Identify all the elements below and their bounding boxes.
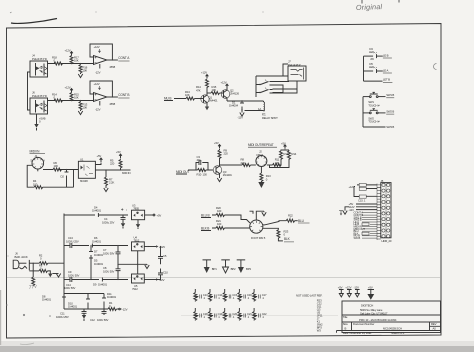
svg-text:MC10452B.SCH: MC10452B.SCH xyxy=(383,327,402,331)
capacitor C14 xyxy=(209,289,223,302)
svg-text:+5V: +5V xyxy=(116,150,121,154)
svg-text:100: 100 xyxy=(217,222,222,226)
svg-text:SW B: SW B xyxy=(354,236,361,240)
node +5V out xyxy=(145,213,162,217)
svg-text:BAR. JACK: BAR. JACK xyxy=(15,255,28,259)
svg-text:FOOT DIN 5: FOOT DIN 5 xyxy=(251,236,266,240)
op-amp U2A xyxy=(94,56,107,65)
supply tap -12V xyxy=(354,286,360,297)
svg-text:1000u 25V: 1000u 25V xyxy=(102,220,114,224)
resistor R15b base xyxy=(211,85,224,95)
svg-text:SW2 B: SW2 B xyxy=(386,110,394,114)
svg-text:C12: C12 xyxy=(90,318,95,322)
switch bus xyxy=(362,97,364,127)
capacitor C5 right of U4 xyxy=(158,246,167,264)
transistor Q3 xyxy=(213,165,232,182)
svg-text:DIN 5: DIN 5 xyxy=(257,153,264,157)
svg-text:7912: 7912 xyxy=(132,287,138,291)
diode D1 xyxy=(229,101,244,111)
svg-text:10K: 10K xyxy=(83,106,88,110)
svg-text:W3: W3 xyxy=(317,329,321,333)
node BLU B xyxy=(201,213,216,217)
node MIDI OUT in xyxy=(176,170,196,174)
relay contacts xyxy=(256,76,297,97)
svg-text:1N4001: 1N4001 xyxy=(68,305,77,309)
svg-text:BLU: BLU xyxy=(298,219,305,223)
svg-text:-12V: -12V xyxy=(122,308,128,312)
svg-text:+12V: +12V xyxy=(201,71,207,75)
bottom gray band xyxy=(0,346,474,352)
svg-text:LED: LED xyxy=(369,65,374,69)
svg-text:47K: 47K xyxy=(196,88,201,92)
supply tap GND bold xyxy=(367,286,374,300)
svg-text:+12V: +12V xyxy=(159,245,165,249)
resistor R3 series xyxy=(29,264,47,273)
-12V rail to C10 xyxy=(156,279,161,281)
svg-text:+12V: +12V xyxy=(65,86,71,90)
svg-text:+12V: +12V xyxy=(94,45,100,49)
svg-text:Size: Size xyxy=(343,322,348,326)
ferrite bead FB1 xyxy=(362,223,369,226)
resistor R14b xyxy=(52,92,63,102)
resistor R6 xyxy=(53,161,62,171)
svg-text:C10: C10 xyxy=(163,271,168,275)
resistor R19 vertical at jack xyxy=(32,263,35,287)
small C mark right edge xyxy=(434,64,437,70)
svg-text:R14: R14 xyxy=(292,152,297,156)
resistor R13m below J2 xyxy=(260,167,271,182)
svg-text:SW1 B: SW1 B xyxy=(386,93,394,97)
svg-text:TOUCH #: TOUCH # xyxy=(368,103,380,107)
svg-text:DIGITECH: DIGITECH xyxy=(361,304,373,308)
svg-text:MIDI IN: MIDI IN xyxy=(122,171,131,175)
svg-text:+12V: +12V xyxy=(221,81,227,85)
net +12V top left xyxy=(349,185,360,197)
capacitor C10 right of U5 xyxy=(158,269,168,281)
main bus xyxy=(63,214,65,310)
pen slash marks near Original xyxy=(362,0,399,4)
connector J3 barrel jack xyxy=(13,252,33,271)
diode D10 xyxy=(68,294,90,310)
net -12V xyxy=(349,208,378,212)
svg-text:MIDI IN: MIDI IN xyxy=(30,149,41,153)
resistor R21f xyxy=(216,219,250,230)
connector J7 label xyxy=(288,60,301,67)
diode D11 xyxy=(102,292,116,309)
svg-text:Sheet 1 of 1: Sheet 1 of 1 xyxy=(391,331,405,335)
capacitor C8 xyxy=(103,264,121,279)
test point TP1 xyxy=(203,260,218,273)
test point TP3 xyxy=(237,260,252,273)
capacitor C4 xyxy=(102,208,127,228)
svg-text:-12V: -12V xyxy=(95,108,101,112)
capacitor C13 xyxy=(194,289,208,302)
transistor Q1 xyxy=(201,93,218,105)
svg-text:+5V: +5V xyxy=(338,286,343,290)
wire Q3 to DIN J2 xyxy=(220,164,243,166)
svg-text:2N4401: 2N4401 xyxy=(209,98,218,102)
mid ground rail xyxy=(117,264,149,269)
svg-text:100: 100 xyxy=(217,209,222,213)
op-amp B feedback loop xyxy=(90,81,112,97)
handwritten pen stroke top-left xyxy=(11,19,57,24)
node LED common xyxy=(364,78,393,83)
U1 output wire xyxy=(95,169,120,171)
svg-text:+12V: +12V xyxy=(345,286,351,290)
grounds at jack xyxy=(48,271,61,277)
J2 ground bold xyxy=(258,181,264,188)
node +12V out xyxy=(144,245,165,249)
inductor L2 xyxy=(359,187,377,190)
svg-text:1A: 1A xyxy=(258,107,261,111)
resistor R4 on rail xyxy=(33,169,74,189)
svg-text:REV: REV xyxy=(431,322,437,326)
svg-text:+12V: +12V xyxy=(65,49,71,53)
rail +5: diode D4 xyxy=(64,206,128,218)
svg-text:Original: Original xyxy=(356,2,383,12)
left page-edge shadow xyxy=(0,290,2,345)
capacitor C14 label xyxy=(64,283,76,290)
svg-text:MIDI OUT: MIDI OUT xyxy=(176,170,189,174)
node CONT B xyxy=(107,93,130,98)
connector J7 jack xyxy=(256,64,306,81)
svg-text:LE A: LE A xyxy=(383,69,389,73)
svg-text:CONT A: CONT A xyxy=(118,56,130,60)
ferrite bead FB2 xyxy=(362,232,369,235)
svg-text:220: 220 xyxy=(224,152,229,156)
node -12V out xyxy=(144,278,164,282)
diode D2 xyxy=(61,169,69,187)
resistor R5 pull-up xyxy=(110,150,122,171)
svg-text:2.2K: 2.2K xyxy=(109,181,114,185)
svg-text:Salt Lake City, UT 84107: Salt Lake City, UT 84107 xyxy=(360,311,388,315)
resistor R11s series right xyxy=(273,158,282,167)
svg-text:1000U 25V: 1000U 25V xyxy=(66,239,79,243)
svg-text:1N4004: 1N4004 xyxy=(229,103,238,107)
svg-text:1N4001: 1N4001 xyxy=(92,239,101,243)
svg-text:220: 220 xyxy=(241,161,246,165)
ground at connector xyxy=(343,207,350,214)
svg-text:10K: 10K xyxy=(212,88,217,92)
connector J4 label xyxy=(32,54,47,61)
svg-text:220: 220 xyxy=(275,161,280,165)
svg-text:100U 50V: 100U 50V xyxy=(68,273,80,277)
svg-text:RELAY SPDT: RELAY SPDT xyxy=(262,116,278,120)
resistor R15b pull-up xyxy=(65,86,80,102)
capacitor C20 xyxy=(223,308,237,321)
node BLK B xyxy=(201,226,216,230)
wire J6 to op-amp xyxy=(48,100,94,102)
svg-text:100: 100 xyxy=(203,172,208,176)
net +5V xyxy=(349,202,378,206)
J5 pin stubs xyxy=(377,184,381,241)
svg-text:+5V: +5V xyxy=(97,154,102,158)
svg-text:1N4001: 1N4001 xyxy=(98,282,107,286)
svg-text:-12V: -12V xyxy=(159,278,165,282)
node CONT A xyxy=(107,56,130,61)
resistor R14 collector pull-up xyxy=(196,71,209,93)
svg-text:CONT B: CONT B xyxy=(118,93,129,97)
connector J5 body xyxy=(381,179,392,243)
op-amp A feedback loop xyxy=(90,44,112,60)
resistor R20 xyxy=(216,206,250,223)
wire J1 left leg to bottom rail xyxy=(27,165,34,187)
resistor R8 series xyxy=(241,158,256,167)
diode D6 xyxy=(89,236,128,248)
svg-text:Date: November 14, 1991: Date: November 14, 1991 xyxy=(343,331,372,335)
svg-text:100U 50V: 100U 50V xyxy=(97,318,109,322)
svg-text:220: 220 xyxy=(110,162,115,166)
svg-text:1N4001: 1N4001 xyxy=(92,209,101,213)
svg-text:LET B: LET B xyxy=(383,78,390,82)
svg-text:Title: Title xyxy=(343,315,348,319)
capacitor C7 xyxy=(103,245,121,264)
capacitor C11 xyxy=(56,309,87,321)
resistor R23 to BLK xyxy=(263,228,294,242)
stray arrow mark xyxy=(339,211,343,216)
wire Q1 collector to R15 xyxy=(207,92,211,94)
connector J6 photo-interrupter xyxy=(30,98,48,114)
op-amp A power xyxy=(94,45,116,75)
svg-text:LED: LED xyxy=(369,50,374,54)
RC network C3 / R10 xyxy=(196,155,213,176)
capacitor C15 xyxy=(223,289,237,302)
FOOT DIN ground xyxy=(250,211,267,220)
wire Q2 collector to relay xyxy=(227,100,264,102)
J6 ground leg xyxy=(34,114,45,131)
svg-text:2N4401: 2N4401 xyxy=(223,173,232,177)
svg-text:6N138: 6N138 xyxy=(80,179,88,183)
transistor Q2 xyxy=(221,81,240,102)
Q1 emitter ground xyxy=(205,105,209,111)
LED D5 xyxy=(364,62,392,73)
svg-text:PHL/4 PI P D: PHL/4 PI P D xyxy=(32,57,47,61)
low rail xyxy=(64,308,108,310)
section title MIDI OUT/REPEAT xyxy=(248,143,277,147)
node MIDI IN out xyxy=(121,170,131,175)
svg-text:C15 .1: C15 .1 xyxy=(358,199,366,203)
svg-text:10K: 10K xyxy=(185,93,190,97)
svg-text:Document Number: Document Number xyxy=(353,322,374,326)
svg-text:-12V: -12V xyxy=(354,286,360,290)
mid rail xyxy=(64,293,104,295)
connector J2 DIN5 xyxy=(256,150,267,167)
inductor L1 xyxy=(357,184,377,187)
faint scan artifact line mid xyxy=(7,277,440,279)
svg-text:BP2: BP2 xyxy=(231,267,236,271)
svg-text:NOT USED LAST REF.: NOT USED LAST REF. xyxy=(296,294,323,298)
svg-text:100U 50V: 100U 50V xyxy=(103,251,115,255)
svg-text:1N4001: 1N4001 xyxy=(107,295,116,299)
capacitor C21 xyxy=(238,308,252,321)
svg-text:47p: 47p xyxy=(197,158,202,162)
LED D3 xyxy=(364,47,392,61)
U4 gnd leg xyxy=(137,251,139,274)
node SW common xyxy=(363,125,394,129)
connector J6 label xyxy=(32,91,47,98)
svg-text:B: B xyxy=(345,327,347,331)
svg-text:SW3 B: SW3 B xyxy=(386,125,394,129)
LED bus xyxy=(363,56,365,81)
svg-text:4558: 4558 xyxy=(109,102,115,106)
svg-text:10K: 10K xyxy=(74,59,79,63)
resistor R2 series xyxy=(33,253,64,264)
resistor R9 collector pull-up xyxy=(214,141,228,165)
node MUTE B xyxy=(164,97,186,101)
svg-text:BLK B: BLK B xyxy=(201,226,209,230)
diode D5 vertical xyxy=(89,258,103,280)
faint scan artifact line low xyxy=(181,315,338,317)
op-amp U2B xyxy=(94,93,107,102)
resistor R12 to +5V xyxy=(280,150,290,165)
dust specks xyxy=(6,12,263,317)
faint marks below border xyxy=(20,343,34,345)
capacitor C16 xyxy=(238,289,252,302)
wire J2 right xyxy=(267,164,273,166)
diode D8 xyxy=(91,278,128,287)
svg-text:10K: 10K xyxy=(83,69,88,73)
svg-text:1000U 25V: 1000U 25V xyxy=(56,315,69,319)
svg-text:PHL/4 PI P D: PHL/4 PI P D xyxy=(32,94,47,98)
capacitor C18 xyxy=(194,308,208,321)
inductor L3 xyxy=(354,195,377,203)
relay K1 coil xyxy=(245,101,279,120)
wire J1 to opto xyxy=(43,169,78,171)
svg-text:BLU B: BLU B xyxy=(201,213,209,217)
svg-text:100: 100 xyxy=(54,164,59,168)
svg-text:-12V: -12V xyxy=(238,116,244,120)
svg-text:-12V: -12V xyxy=(95,71,101,75)
svg-text:100U 50V: 100U 50V xyxy=(103,269,115,273)
resistor R16 to -V xyxy=(78,63,87,78)
svg-text:+5V: +5V xyxy=(157,213,162,217)
net -12V under D1 xyxy=(238,100,245,119)
regulator U3 7805 xyxy=(132,204,145,229)
junction to rail xyxy=(73,170,75,188)
wire J4 to op-amp xyxy=(48,63,94,65)
svg-text:MIDI OUT/REPEAT: MIDI OUT/REPEAT xyxy=(248,143,274,147)
svg-text:+12V: +12V xyxy=(94,82,100,86)
op-amp B power xyxy=(94,82,116,112)
regulator U5 7912 xyxy=(132,274,145,291)
signal list wires xyxy=(354,211,378,240)
svg-text:JW: JW xyxy=(370,57,374,61)
rail -12: capacitor C9 xyxy=(64,270,92,282)
svg-text:BP1: BP1 xyxy=(212,267,217,271)
resistor R1 xyxy=(108,301,128,312)
capacitor C19 xyxy=(209,308,223,321)
supply tap +12V xyxy=(345,286,351,297)
test point TP2 xyxy=(221,260,236,273)
resistor R17 pull-up xyxy=(65,49,80,65)
svg-text:+5V: +5V xyxy=(214,141,219,145)
connector FOOT DIN 5 xyxy=(250,220,266,240)
capacitor C17 xyxy=(253,289,267,302)
resistor R22 to BLU xyxy=(263,214,310,225)
rail +12: capacitor C6 xyxy=(64,236,89,248)
resistor R18 xyxy=(52,55,63,65)
opto-isolator U1 6N138 xyxy=(78,158,95,184)
svg-text:+5V: +5V xyxy=(281,141,286,145)
connector J4 photo-interrupter xyxy=(30,61,48,77)
svg-text:4558: 4558 xyxy=(109,65,115,69)
resistor R7 to ground xyxy=(104,169,115,191)
switch SW2 xyxy=(363,109,394,124)
svg-text:HDR_20: HDR_20 xyxy=(382,239,392,243)
U1 Vcc +5V xyxy=(95,154,102,165)
not used list xyxy=(296,294,323,333)
regulator U4 7812 xyxy=(132,235,145,250)
resistor R14m to +5V xyxy=(270,141,297,167)
supply tap +5V xyxy=(338,286,344,297)
capacitor C22 xyxy=(253,308,267,321)
switch SW1 xyxy=(363,92,394,107)
section title MIDI IN xyxy=(30,149,46,153)
wire joining J4 and J6 xyxy=(28,72,31,110)
resistor R13b to -V xyxy=(78,100,87,115)
connector J1 DIN5 xyxy=(31,154,46,169)
svg-text:LE B: LE B xyxy=(383,54,389,58)
diode D7 vertical xyxy=(89,245,103,264)
diode D8 on bus xyxy=(42,294,66,301)
net +12V xyxy=(349,205,378,209)
svg-text:MU B: MU B xyxy=(164,97,171,101)
svg-text:1N4001: 1N4001 xyxy=(42,298,51,302)
svg-text:2N4126: 2N4126 xyxy=(230,91,239,95)
svg-text:100U 50V: 100U 50V xyxy=(64,286,76,290)
svg-text:100: 100 xyxy=(33,182,38,186)
svg-text:BP3: BP3 xyxy=(246,267,251,271)
svg-text:10K: 10K xyxy=(74,96,79,100)
svg-text:TOUCH #: TOUCH # xyxy=(368,120,380,124)
svg-text:R10: R10 xyxy=(197,172,202,176)
resistor R13 xyxy=(185,90,204,100)
capacitor C12 xyxy=(90,309,109,322)
